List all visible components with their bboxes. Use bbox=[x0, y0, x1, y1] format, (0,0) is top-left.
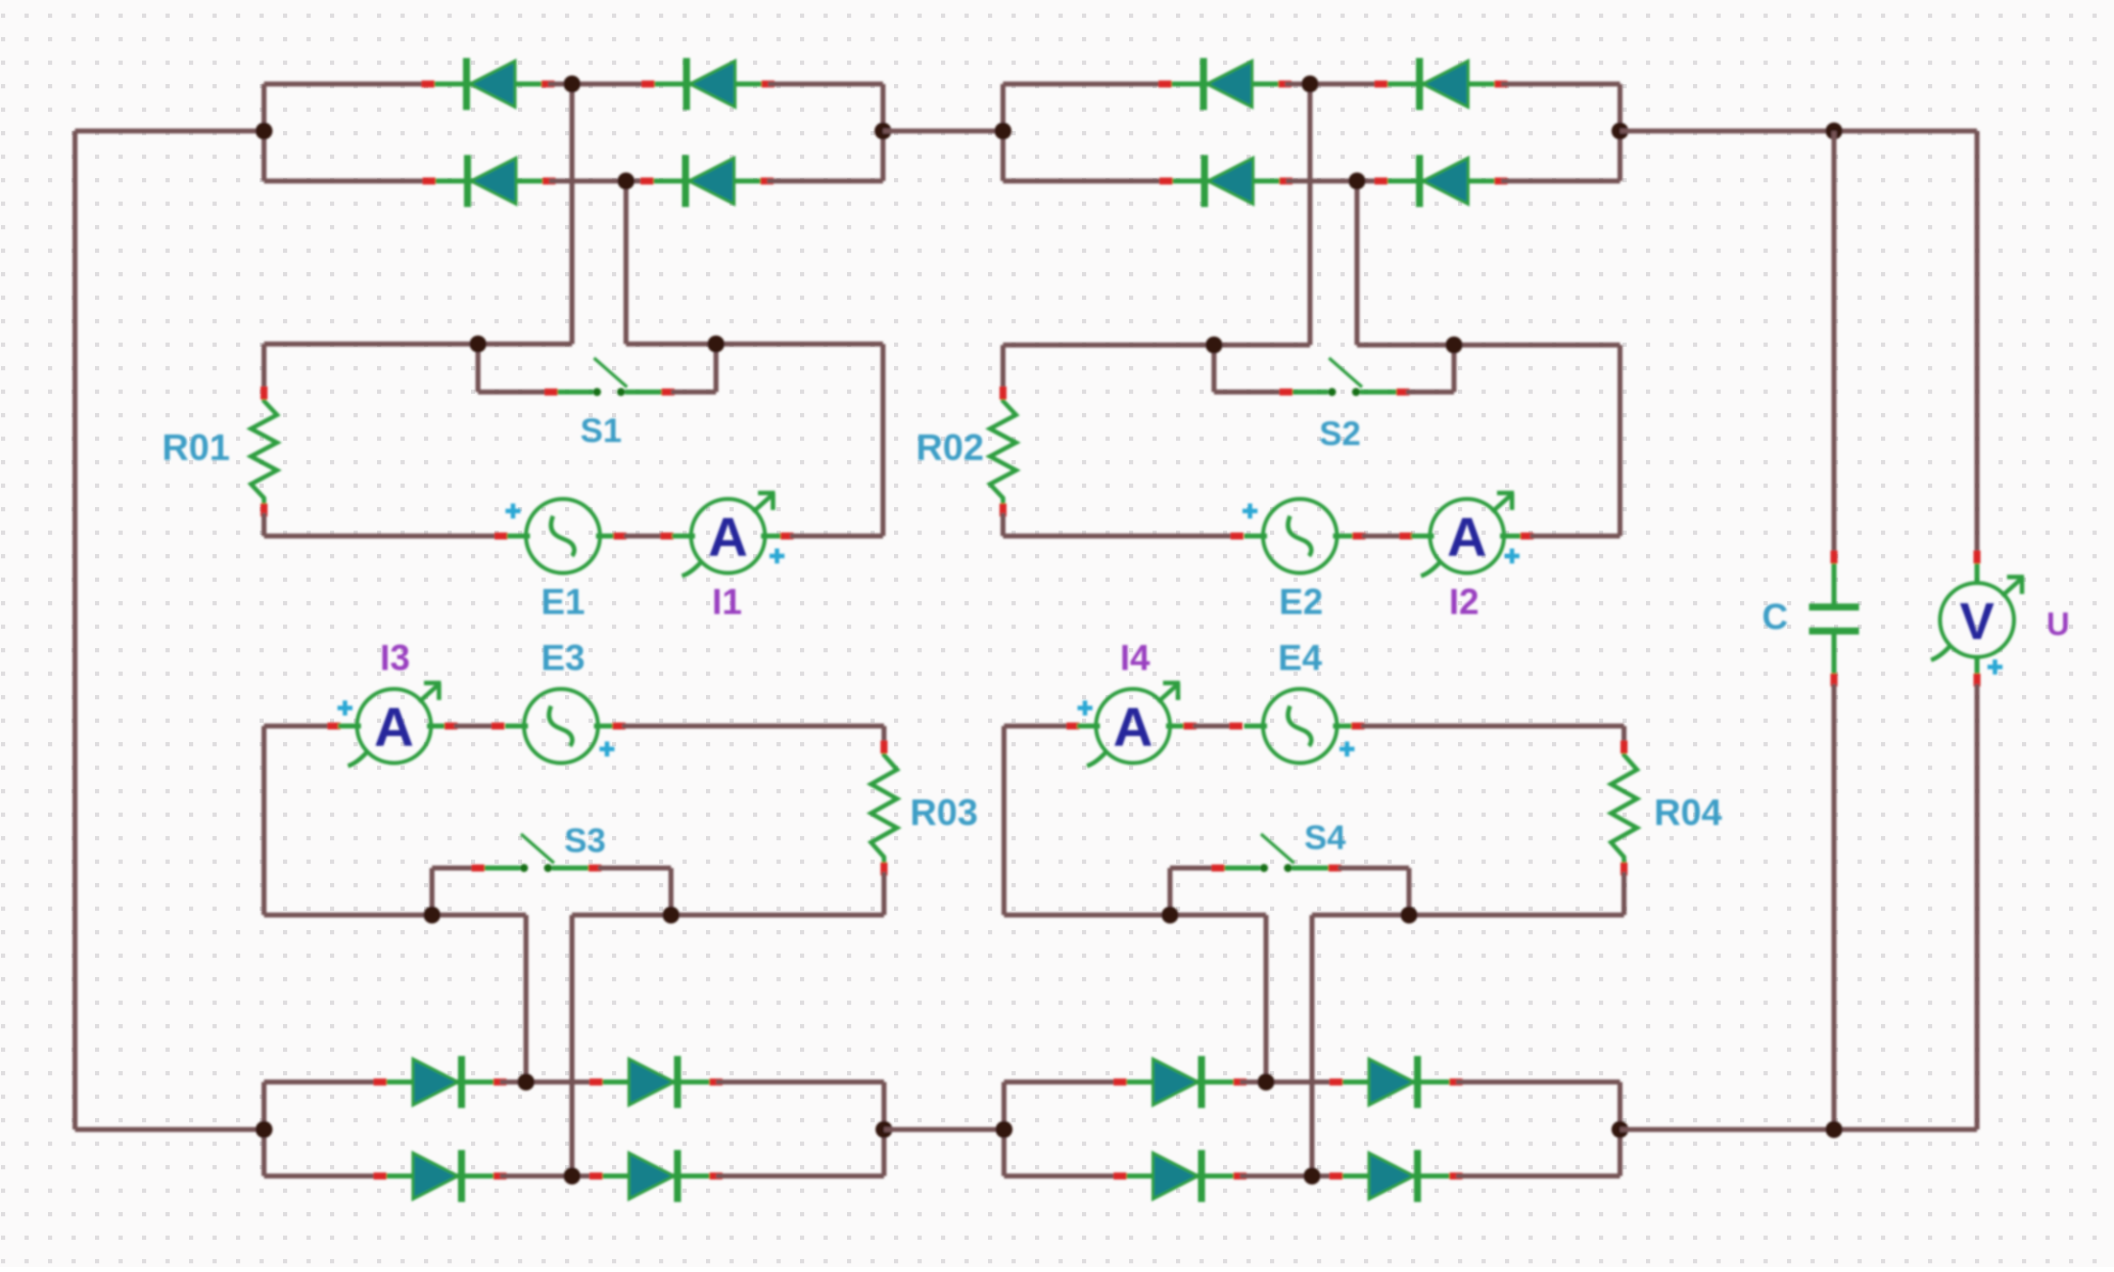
plus I1 bbox=[770, 549, 785, 564]
node bbox=[1258, 1074, 1275, 1091]
pin tick V top bbox=[1974, 551, 1981, 564]
diode D10 bbox=[590, 1056, 723, 1108]
diode D9 bbox=[374, 1056, 507, 1108]
svg-text:I2: I2 bbox=[1449, 581, 1479, 622]
diode D3 bbox=[423, 155, 556, 207]
svg-text:I1: I1 bbox=[712, 581, 742, 622]
svg-text:A: A bbox=[1113, 696, 1153, 758]
svg-text:S3: S3 bbox=[564, 822, 606, 860]
svg-text:R02: R02 bbox=[916, 427, 984, 468]
wire drop to lower bridge bottom row bbox=[570, 915, 575, 1176]
ammeter I1 bbox=[672, 493, 784, 576]
pin tick I4 right bbox=[1184, 723, 1197, 730]
node bottom-left bridge input bbox=[256, 1121, 273, 1138]
wire cathode junction drop 4 bbox=[1355, 181, 1360, 345]
svg-text:E4: E4 bbox=[1278, 637, 1322, 678]
wire bbox=[622, 724, 884, 729]
wire S1 loop right side bbox=[881, 344, 886, 536]
node bbox=[1206, 337, 1223, 354]
wire cathode junction drop 1 bbox=[570, 84, 575, 344]
switch S3 bbox=[472, 834, 602, 872]
plus E2 bbox=[1243, 504, 1258, 519]
wire bbox=[1361, 724, 1624, 729]
wire bbox=[1004, 1174, 1120, 1179]
wire S1 left drop bbox=[476, 344, 481, 392]
svg-text:A: A bbox=[1447, 506, 1487, 568]
plus V bbox=[1988, 660, 2003, 675]
svg-text:I4: I4 bbox=[1120, 637, 1150, 678]
diode D15 bbox=[1114, 1150, 1247, 1202]
node bbox=[1401, 907, 1418, 924]
diode D8 bbox=[1375, 155, 1508, 207]
svg-text:R03: R03 bbox=[910, 792, 978, 833]
diode D1 bbox=[422, 58, 555, 110]
pin tick I3 right bbox=[445, 723, 458, 730]
wire bbox=[598, 866, 671, 871]
wire drop to lower right bridge top row bbox=[1264, 915, 1269, 1082]
pin tick I2 left bbox=[1400, 533, 1413, 540]
wire bbox=[1501, 82, 1620, 87]
wire bbox=[671, 390, 716, 395]
wire bbox=[1530, 534, 1620, 539]
wire S2 right drop bbox=[1452, 345, 1457, 392]
wire below R01 bbox=[262, 513, 267, 536]
wire S2 loop top rail right bbox=[1357, 343, 1620, 348]
node bottom-left bridge output bbox=[876, 1121, 893, 1138]
node bbox=[424, 907, 441, 924]
diode D7 bbox=[1160, 155, 1293, 207]
pin tick I4 left bbox=[1067, 723, 1080, 730]
wire left bus vertical bbox=[73, 131, 78, 1130]
wire bbox=[790, 534, 883, 539]
diode D11 bbox=[374, 1150, 507, 1202]
wire bbox=[500, 1174, 596, 1179]
wire bbox=[264, 724, 336, 729]
wire bbox=[1456, 1174, 1620, 1179]
wire S4 right riser bbox=[1407, 868, 1412, 915]
node left bridge output bbox=[875, 123, 892, 140]
source E4 bbox=[1244, 689, 1356, 763]
diode D16 bbox=[1330, 1150, 1463, 1202]
plus E4 bbox=[1340, 742, 1355, 757]
wire above R04 bbox=[1622, 726, 1627, 744]
wire bottom-right bridge left bracket bbox=[1002, 1082, 1007, 1176]
plus I2 bbox=[1505, 549, 1520, 564]
wire S3 right riser bbox=[669, 868, 674, 915]
node bbox=[470, 336, 487, 353]
wire top-left bridge left bracket bbox=[262, 84, 267, 181]
wire bbox=[264, 1080, 380, 1085]
wire capacitor branch upper bbox=[1832, 131, 1837, 553]
wire drop to lower bridge top row bbox=[524, 915, 529, 1082]
wire bbox=[1003, 534, 1239, 539]
wire above R01 bbox=[262, 344, 267, 390]
wire bbox=[1285, 82, 1381, 87]
node bbox=[1304, 1168, 1321, 1185]
wire above R02 bbox=[1001, 345, 1006, 390]
pin tick E2 right bbox=[1353, 533, 1366, 540]
wire top-right bridge left bracket bbox=[1001, 84, 1006, 181]
diode D14 bbox=[1330, 1056, 1463, 1108]
wire bbox=[264, 82, 428, 87]
wire bbox=[1240, 1174, 1336, 1179]
wire bbox=[432, 866, 476, 871]
pin tick I1 right bbox=[781, 533, 794, 540]
wire bbox=[1170, 866, 1216, 871]
node top row junction bbox=[564, 76, 581, 93]
pin tick I3 left bbox=[328, 723, 341, 730]
wire bbox=[1501, 179, 1620, 184]
wire below R04 bbox=[1622, 872, 1627, 915]
wire bottom rail to capacitor bbox=[1620, 1127, 1834, 1132]
ammeter I2 bbox=[1411, 493, 1523, 576]
node capacitor bottom bbox=[1826, 1121, 1843, 1138]
wire bbox=[549, 179, 647, 184]
pin tick E4 right bbox=[1352, 723, 1365, 730]
wire bbox=[454, 724, 496, 729]
node top row junction right bbox=[1302, 76, 1319, 93]
wire bottom-left bridge left bracket bbox=[262, 1082, 267, 1176]
pin tick E3 left bbox=[492, 723, 505, 730]
wire bottom-right bridge right bracket bbox=[1618, 1082, 1623, 1176]
wire above R03 bbox=[882, 726, 887, 744]
wire S4 bottom rail right bbox=[1312, 913, 1624, 918]
wire S2 loop top rail left bbox=[1003, 343, 1310, 348]
svg-text:R04: R04 bbox=[1654, 792, 1722, 833]
wire bottom feed to left bridge bbox=[75, 1127, 264, 1132]
wire S3 left riser bbox=[430, 868, 435, 915]
resistor R01 bbox=[251, 387, 277, 517]
wire bbox=[1193, 724, 1234, 729]
wire bbox=[768, 82, 883, 87]
resistor R04 bbox=[1611, 741, 1637, 876]
svg-text:C: C bbox=[1762, 596, 1788, 637]
wire below R02 bbox=[1001, 513, 1006, 536]
diode D6 bbox=[1375, 58, 1508, 110]
wire voltmeter branch lower bbox=[1975, 684, 1980, 1130]
wire below R03 bbox=[882, 872, 887, 915]
svg-text:S4: S4 bbox=[1304, 819, 1346, 857]
svg-text:U: U bbox=[2046, 606, 2069, 642]
wire S1 loop top rail right bbox=[626, 342, 883, 347]
wire top-left bridge right bracket bbox=[881, 84, 886, 181]
wire rail to voltmeter bbox=[1834, 129, 1977, 134]
plus E1 bbox=[506, 504, 521, 519]
voltmeter lead bottom bbox=[1975, 656, 1980, 677]
svg-text:I3: I3 bbox=[380, 637, 410, 678]
diode D2 bbox=[642, 58, 775, 110]
wire top-right bridge right bracket bbox=[1618, 84, 1623, 181]
node bbox=[518, 1074, 535, 1091]
wire S2 loop right side bbox=[1618, 345, 1623, 536]
wire bbox=[1456, 1080, 1620, 1085]
source E2 bbox=[1244, 499, 1356, 573]
wire bbox=[264, 1174, 380, 1179]
wire bbox=[1286, 179, 1381, 184]
wire bbox=[1003, 179, 1166, 184]
wire bbox=[767, 179, 883, 184]
wire rail to capacitor bbox=[1620, 129, 1834, 134]
node bottom-right bridge output bbox=[1612, 1121, 1629, 1138]
wire bbox=[1240, 1080, 1336, 1085]
pin tick V bottom bbox=[1974, 674, 1981, 687]
node bbox=[663, 907, 680, 924]
ammeter I4 bbox=[1077, 683, 1189, 766]
node bbox=[564, 1168, 581, 1185]
resistor R02 bbox=[990, 387, 1016, 517]
svg-text:A: A bbox=[708, 506, 748, 568]
wire bbox=[478, 390, 548, 395]
source E3 bbox=[505, 689, 617, 763]
wire bottom rail to voltmeter bbox=[1834, 1127, 1977, 1132]
node bbox=[1162, 907, 1179, 924]
wire bbox=[1004, 1080, 1120, 1085]
diode D4 bbox=[641, 155, 774, 207]
wire bbox=[716, 1080, 884, 1085]
svg-text:E1: E1 bbox=[541, 581, 585, 622]
resistor R03 bbox=[871, 741, 897, 876]
wire bbox=[548, 82, 648, 87]
voltmeter lead top bbox=[1975, 560, 1980, 584]
wire bbox=[624, 534, 665, 539]
svg-text:R01: R01 bbox=[162, 427, 230, 468]
wire S4 left riser bbox=[1168, 868, 1173, 915]
wire bbox=[1338, 866, 1409, 871]
voltmeter U bbox=[1931, 577, 2024, 660]
node right bridge input bbox=[995, 123, 1012, 140]
wire inter-bridge rail top bbox=[883, 129, 1003, 134]
wire bottom-left bridge right bracket bbox=[882, 1082, 887, 1176]
plus I4 bbox=[1078, 701, 1093, 716]
wire S4 loop left side bbox=[1002, 726, 1007, 915]
wire bbox=[716, 1174, 884, 1179]
wire S3 loop left side bbox=[262, 726, 267, 915]
svg-text:S2: S2 bbox=[1319, 415, 1361, 453]
node left bridge input bbox=[256, 123, 273, 140]
wire voltmeter branch upper bbox=[1975, 131, 1980, 553]
wire top feed to left bridge bbox=[75, 129, 264, 134]
wire bbox=[264, 534, 503, 539]
switch S1 bbox=[545, 358, 675, 396]
pin tick I1 left bbox=[661, 533, 674, 540]
wire S3 bottom rail left bbox=[264, 913, 526, 918]
wire capacitor branch lower bbox=[1832, 684, 1837, 1130]
wire bbox=[1004, 724, 1075, 729]
svg-text:V: V bbox=[1960, 593, 1995, 651]
node bbox=[708, 336, 725, 353]
wire cathode junction drop 2 bbox=[624, 181, 629, 344]
node bbox=[1446, 337, 1463, 354]
wire bbox=[500, 1080, 596, 1085]
wire bbox=[1406, 390, 1454, 395]
wire bbox=[1214, 390, 1283, 395]
pin tick E2 left bbox=[1231, 533, 1244, 540]
svg-text:E2: E2 bbox=[1279, 581, 1323, 622]
node bottom-right bridge input bbox=[996, 1121, 1013, 1138]
pin tick E3 right bbox=[613, 723, 626, 730]
wire bbox=[1362, 534, 1404, 539]
switch S4 bbox=[1212, 834, 1342, 872]
wire S1 loop top rail left bbox=[264, 342, 572, 347]
diode D5 bbox=[1159, 58, 1292, 110]
wire S3 bottom rail right bbox=[572, 913, 884, 918]
wire S2 left drop bbox=[1212, 345, 1217, 392]
pin tick I2 right bbox=[1521, 533, 1534, 540]
wire bbox=[264, 179, 429, 184]
wire S4 bottom rail left bbox=[1004, 913, 1266, 918]
svg-text:S1: S1 bbox=[580, 412, 622, 450]
node bottom row junction bbox=[618, 173, 635, 190]
plus E3 bbox=[600, 742, 615, 757]
wire cathode junction drop 3 bbox=[1308, 84, 1313, 345]
diode D13 bbox=[1114, 1056, 1247, 1108]
svg-text:E3: E3 bbox=[541, 637, 585, 678]
source E1 bbox=[507, 499, 619, 573]
diode D12 bbox=[590, 1150, 723, 1202]
node bottom row junction right bbox=[1349, 173, 1366, 190]
pin tick E1 left bbox=[495, 533, 508, 540]
node capacitor top bbox=[1826, 123, 1843, 140]
switch S2 bbox=[1280, 358, 1410, 396]
ammeter I3 bbox=[338, 683, 450, 766]
pin tick E4 left bbox=[1230, 723, 1243, 730]
wire drop to lower right bridge bottom row bbox=[1310, 915, 1315, 1176]
wire bbox=[1003, 82, 1165, 87]
capacitor C bbox=[1809, 551, 1859, 687]
wire S1 right drop bbox=[714, 344, 719, 392]
svg-text:A: A bbox=[374, 696, 414, 758]
wire inter-bridge rail bottom bbox=[884, 1127, 1004, 1132]
plus I3 bbox=[338, 701, 353, 716]
pin tick E1 right bbox=[614, 533, 627, 540]
node right bridge output bbox=[1612, 123, 1629, 140]
